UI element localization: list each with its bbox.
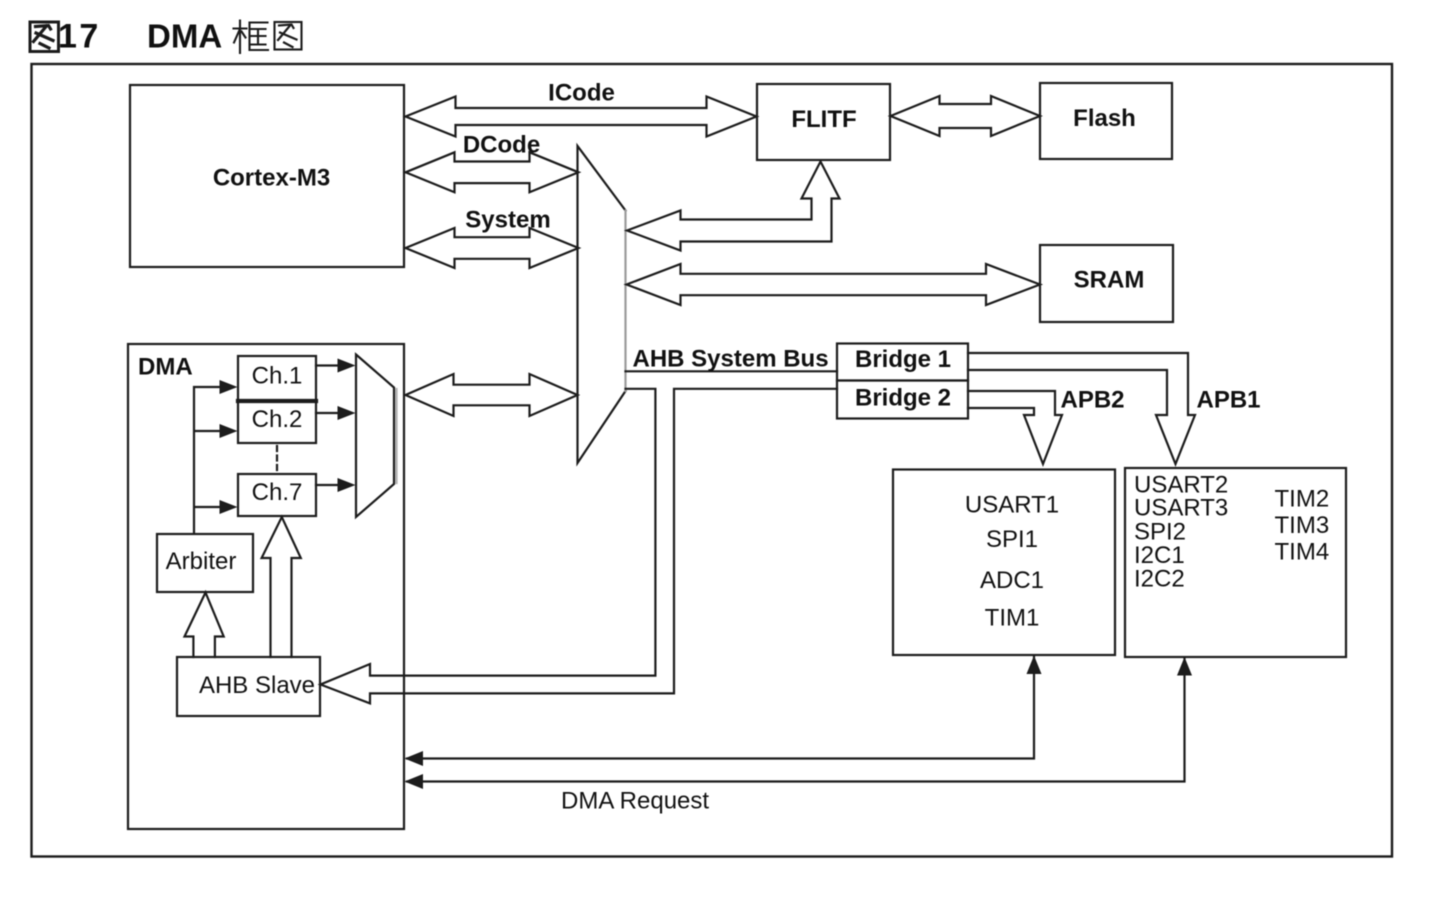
svg-text:APB2: APB2 [1061,387,1125,414]
title CJK glyph 图 (figure) [30,22,59,52]
svg-text:Bridge 1: Bridge 1 [855,346,951,373]
svg-text:DCode: DCode [463,132,540,159]
svg-text:Ch.2: Ch.2 [252,406,303,433]
svg-text:Bridge 2: Bridge 2 [855,385,951,412]
dashed line Ch.2 to Ch.7 [276,446,278,472]
wire DMA request from APB1 peripherals [407,659,1185,782]
svg-text:TIM2: TIM2 [1275,486,1330,513]
arrowhead Ch.1 to mux [338,359,356,373]
DMA to matrix double arrow [406,374,578,416]
arrowhead DMA request 1 up [1027,656,1042,675]
bus matrix trapezoid [578,146,626,463]
box Arbiter [157,534,253,592]
svg-text:USART1: USART1 [965,492,1059,519]
svg-text:Arbiter: Arbiter [166,548,237,575]
svg-text:SRAM: SRAM [1074,267,1145,294]
wire Ch.2 to mux [316,412,339,414]
svg-text:APB1: APB1 [1197,387,1261,414]
ICode double arrow [406,97,757,137]
box Ch.7 [238,474,316,516]
box DMA controller [128,344,404,829]
box Ch.2 [238,401,316,443]
svg-text:USART3: USART3 [1134,495,1228,522]
svg-text:TIM1: TIM1 [985,605,1040,632]
FLITF-Flash double arrow [891,96,1041,136]
box APB2 peripherals [893,470,1115,656]
arrow AHB Slave to Arbiter [185,593,224,658]
svg-text:Flash: Flash [1073,105,1136,132]
arrowhead DMA request 2 left [405,774,424,789]
box SRAM [1040,245,1173,322]
box Flash [1040,83,1172,159]
svg-text:TIM4: TIM4 [1275,539,1330,566]
svg-text:AHB System Bus: AHB System Bus [633,346,829,373]
arrowhead Ch.7 to mux [338,478,356,492]
svg-text:17: 17 [58,18,101,56]
svg-text:Ch.1: Ch.1 [252,363,303,390]
DMA mux trapezoid [356,355,394,518]
wire DMA channel feeder [194,387,221,534]
svg-text:DMA: DMA [138,354,193,381]
matrix to FLITF bent arrow [627,162,840,251]
bus matrix right edge (grey) [624,211,626,392]
arrowhead DMA request 2 up [1177,657,1192,676]
svg-text:ADC1: ADC1 [980,567,1044,594]
DCode double arrow [406,152,579,192]
System double arrow [406,228,579,268]
wire Bridge1 to APB1 arrow [968,353,1195,464]
wire Ch.7 to mux [316,484,339,486]
svg-text:I2C2: I2C2 [1134,566,1185,593]
box APB1 peripherals [1125,468,1346,657]
wire Bridge2 to APB2 arrow [968,391,1062,464]
box Bridge 1 [837,344,968,381]
arrow AHB Slave to Ch.7 [262,517,301,657]
box Ch.1 [238,356,316,401]
box Cortex-M3 [130,85,404,267]
svg-text:FLITF: FLITF [791,106,856,133]
svg-text:DMA: DMA [147,18,222,55]
arrowhead DMA request 1 left [405,751,424,766]
svg-text:Ch.7: Ch.7 [252,479,303,506]
svg-text:System: System [465,207,550,234]
DMA mux shadow edge [395,389,397,483]
box Bridge 2 [837,381,968,419]
AHB system bus top line [626,370,838,372]
arrowhead into Ch.7 [220,500,238,514]
wire Ch.1 to mux [316,364,339,366]
box AHB Slave [177,657,320,716]
svg-text:Cortex-M3: Cortex-M3 [213,165,330,192]
svg-text:DMA Request: DMA Request [561,788,709,815]
svg-text:SPI1: SPI1 [986,526,1038,553]
arrowhead into Ch.2 [220,424,238,438]
svg-text:TIM3: TIM3 [1275,512,1330,539]
matrix to SRAM double arrow [627,264,1041,305]
title CJK glyph 框 [234,21,269,54]
title CJK glyph 图 [275,22,302,50]
arrowhead Ch.2 to mux [338,406,356,420]
thick divider Ch.1/Ch.2 [238,399,316,403]
AHB bus branch to AHB Slave arrow [321,389,838,704]
box FLITF [757,84,890,160]
wire DMA request from APB2 peripherals [407,657,1034,759]
arrowhead into Ch.1 [220,380,238,394]
svg-text:AHB Slave: AHB Slave [199,672,315,699]
svg-text:ICode: ICode [548,80,615,107]
